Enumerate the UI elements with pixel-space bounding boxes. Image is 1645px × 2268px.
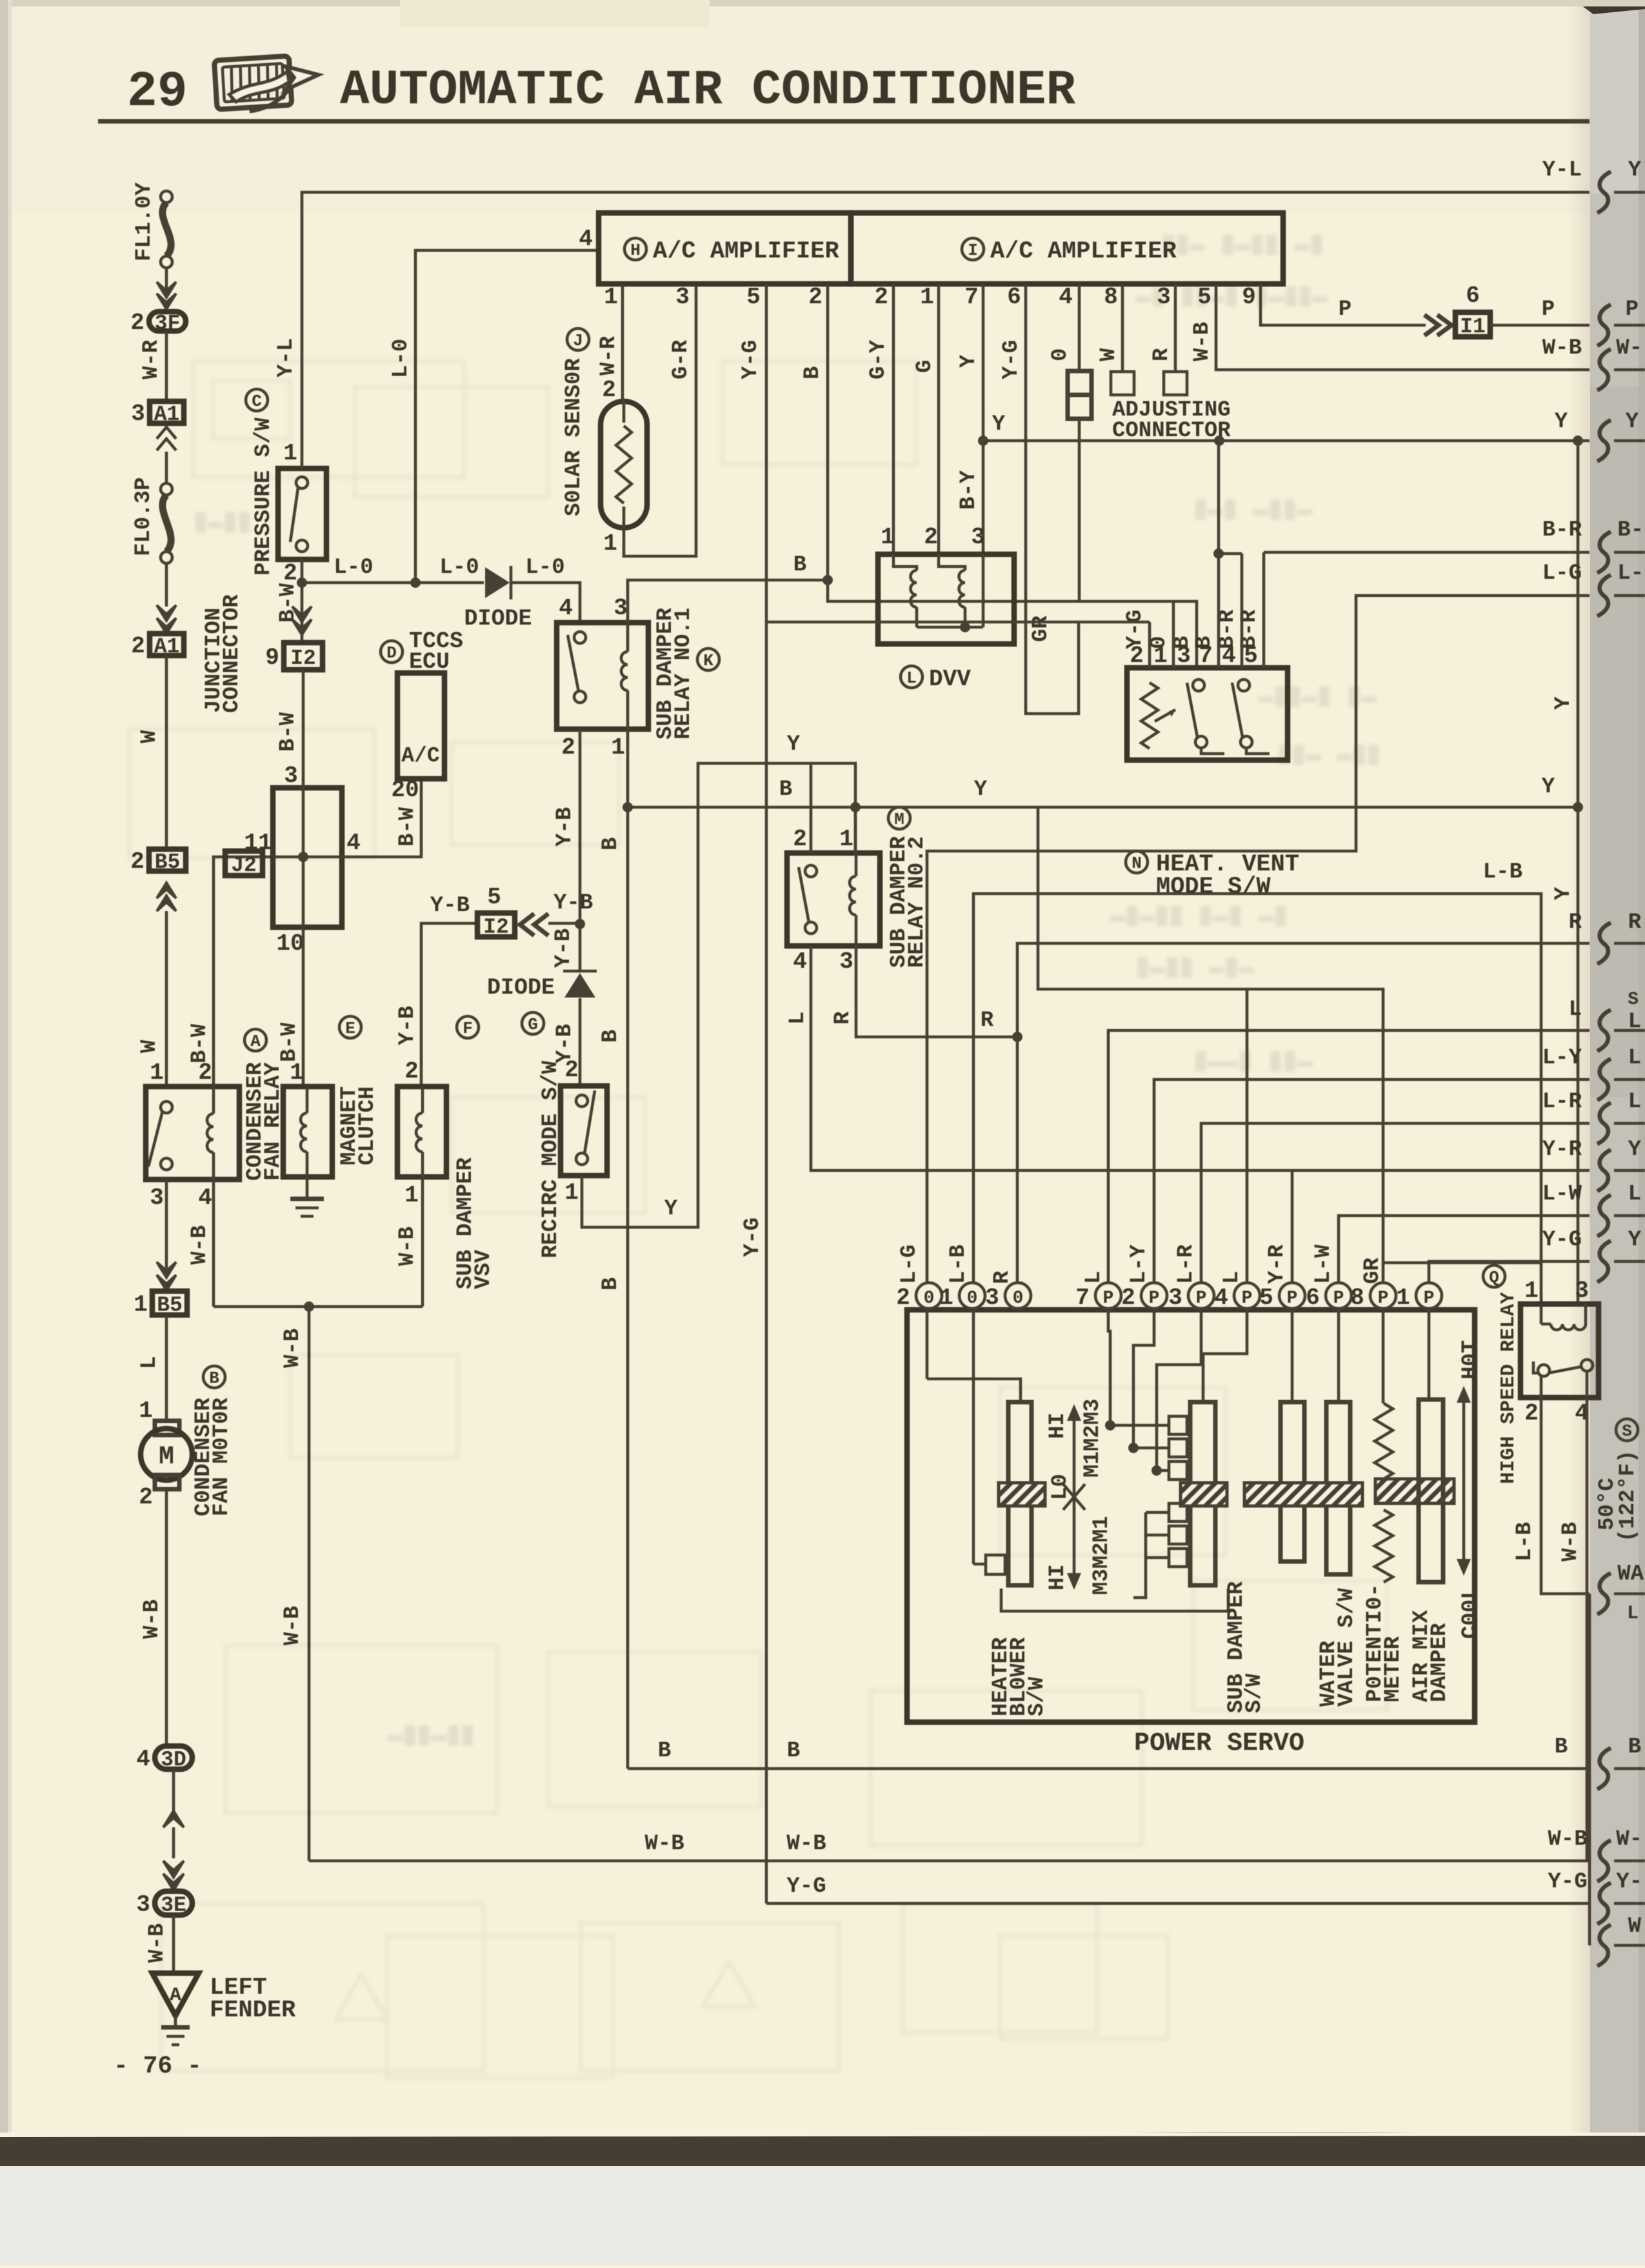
svg-text:L-B: L-B — [1513, 1522, 1537, 1561]
svg-text:L-Y: L-Y — [1127, 1244, 1151, 1284]
svg-text:1: 1 — [611, 734, 625, 761]
wire — [165, 268, 168, 292]
svg-text:Y: Y — [787, 732, 801, 757]
svg-text:C00L: C00L — [1459, 1586, 1483, 1639]
svg-text:I2: I2 — [290, 647, 316, 670]
wire L-G to page edge — [927, 596, 1590, 1283]
svg-text:Y: Y — [1628, 158, 1642, 183]
svg-text:A: A — [170, 1985, 181, 2007]
svg-text:R: R — [981, 1009, 994, 1033]
I pin 4 wire O to adjusting connector — [1078, 284, 1081, 371]
heater blower switch slider — [926, 1309, 929, 1379]
svg-text:A/C AMPLIFIER: A/C AMPLIFIER — [990, 238, 1177, 265]
svg-text:B: B — [1555, 1735, 1568, 1760]
wire Y-G bus — [766, 1902, 1590, 1905]
I pin 2 wire G-Y to DVV 1 — [892, 284, 895, 554]
connector 3F pin 2 — [149, 312, 186, 331]
svg-text:ECU: ECU — [409, 649, 450, 675]
svg-text:DIODE: DIODE — [487, 975, 555, 1001]
svg-text:▮▬▬▮ ▮▮▬: ▮▬▬▮ ▮▮▬ — [1193, 1047, 1312, 1076]
svg-text:G-Y: G-Y — [866, 339, 891, 379]
svg-text:3E: 3E — [161, 1894, 186, 1918]
svg-text:W: W — [1097, 348, 1121, 361]
svg-text:2: 2 — [130, 848, 145, 875]
svg-text:0: 0 — [1013, 1289, 1024, 1309]
svg-text:L-R: L-R — [1174, 1244, 1199, 1284]
svg-text:Y-: Y- — [1616, 1870, 1642, 1894]
svg-text:6: 6 — [1007, 284, 1021, 310]
connector I2 pin 5 — [477, 913, 515, 937]
svg-text:B5: B5 — [155, 850, 181, 874]
svg-text:B: B — [599, 1030, 623, 1043]
svg-text:▮▬▮ ▬▮▮▬: ▮▬▮ ▬▮▮▬ — [1193, 496, 1312, 525]
solar sensor J — [601, 401, 647, 528]
svg-text:B-R: B-R — [1542, 518, 1582, 543]
svg-text:L: L — [1628, 1090, 1641, 1114]
svg-text:Y: Y — [1551, 887, 1576, 900]
left fender ground A — [152, 1973, 199, 2016]
svg-text:W-B: W-B — [145, 1923, 170, 1963]
svg-text:Y-R: Y-R — [1542, 1138, 1582, 1162]
diode — [485, 567, 510, 598]
svg-text:P: P — [1196, 1289, 1207, 1309]
svg-text:DIODE: DIODE — [464, 606, 532, 632]
wire L-B relay pin 2 exit — [1541, 1398, 1590, 1594]
svg-text:Y-G: Y-G — [1542, 1228, 1582, 1252]
I pin 9 wire P to connector I1 — [1261, 284, 1426, 325]
connector I1 pin 6 — [1455, 312, 1490, 337]
H pin 5 wire Y-G down to Y-G bus — [765, 284, 768, 1903]
svg-text:(122°F): (122°F) — [1616, 1450, 1640, 1542]
svg-text:Y-B: Y-B — [553, 807, 577, 847]
svg-text:W-: W- — [1616, 336, 1642, 361]
top-right dark corner — [1574, 0, 1645, 14]
I pin 5 wire W-B to page edge — [1216, 284, 1590, 370]
connector arrow — [157, 282, 176, 297]
svg-text:L: L — [786, 1012, 810, 1025]
thermo switch S label — [1616, 1419, 1638, 1441]
svg-text:W: W — [137, 730, 162, 743]
svg-text:Q: Q — [1489, 1268, 1499, 1287]
svg-text:3: 3 — [1168, 1285, 1182, 1311]
svg-text:L-0: L-0 — [439, 556, 479, 580]
wire R relay M pin 3 — [856, 946, 1017, 1037]
connector B5 pin 1 — [152, 1291, 187, 1315]
svg-text:Y-G: Y-G — [786, 1874, 826, 1899]
svg-text:L: L — [1628, 1182, 1641, 1207]
wire Y right exit branch — [1577, 805, 1580, 807]
svg-text:5: 5 — [1259, 1285, 1273, 1311]
svg-text:S: S — [1628, 990, 1639, 1010]
svg-text:1: 1 — [150, 1059, 164, 1086]
svg-text:GR: GR — [1029, 616, 1053, 642]
svg-text:G: G — [528, 1015, 538, 1034]
svg-text:A/C: A/C — [401, 744, 439, 768]
svg-text:B: B — [209, 1369, 219, 1388]
wire W-B relay pin 4 to bus — [1586, 1398, 1589, 1861]
svg-text:1: 1 — [920, 284, 934, 310]
svg-text:S: S — [1622, 1421, 1632, 1441]
svg-text:I: I — [968, 241, 978, 260]
wire Y-B VSV to I2 pin 5 — [421, 923, 477, 1086]
svg-text:L-G: L-G — [897, 1245, 922, 1284]
svg-text:W-B: W-B — [188, 1225, 212, 1265]
svg-text:W-B: W-B — [786, 1832, 826, 1856]
svg-text:2: 2 — [131, 633, 145, 659]
svg-text:VALVE S/W: VALVE S/W — [1335, 1588, 1359, 1707]
wire L to B5 — [165, 1179, 168, 1269]
svg-text:W-B: W-B — [1190, 322, 1215, 361]
svg-text:HI: HI — [1046, 1564, 1070, 1591]
H pin 1 wire W-R — [621, 284, 624, 401]
svg-text:Y: Y — [1628, 1138, 1642, 1162]
svg-text:P: P — [1378, 1289, 1389, 1309]
wire W — [165, 911, 168, 1087]
svg-text:F: F — [463, 1019, 473, 1038]
svg-text:I2: I2 — [483, 916, 509, 939]
svg-text:1: 1 — [1524, 1278, 1539, 1304]
wire B-W relay coil to junction connector pin 11 — [214, 857, 273, 1087]
svg-text:W-B: W-B — [1542, 336, 1582, 361]
svg-text:6: 6 — [1306, 1285, 1320, 1311]
svg-text:P: P — [1542, 297, 1555, 322]
connector arrows — [520, 914, 534, 936]
svg-text:6: 6 — [1466, 283, 1480, 309]
wire — [165, 563, 168, 607]
svg-text:W-B: W-B — [140, 1600, 164, 1639]
svg-text:L-R: L-R — [1542, 1090, 1582, 1114]
svg-text:FL0.3P: FL0.3P — [132, 477, 156, 556]
wire L-R to page edge — [1201, 1123, 1590, 1283]
svg-text:0: 0 — [967, 1289, 978, 1309]
wire Y-B to junction — [548, 922, 580, 925]
svg-text:- 76 -: - 76 - — [114, 2052, 202, 2080]
svg-text:5: 5 — [746, 284, 761, 310]
svg-text:L: L — [1220, 1271, 1244, 1284]
svg-text:3: 3 — [131, 401, 145, 427]
svg-text:Y: Y — [1626, 410, 1639, 434]
TCCS ECU D — [397, 673, 444, 779]
svg-text:B: B — [793, 553, 806, 577]
svg-text:3: 3 — [284, 763, 298, 789]
svg-text:2: 2 — [139, 1484, 153, 1510]
svg-text:2: 2 — [896, 1285, 910, 1311]
svg-text:4: 4 — [559, 595, 573, 621]
wire sensor to H pin 3 — [624, 284, 696, 556]
wire W exit bottom — [1588, 1594, 1591, 1945]
svg-text:G: G — [913, 360, 937, 373]
left edge strip — [0, 0, 8, 2133]
I pin 1 wire G to DVV 2 — [937, 284, 941, 554]
svg-text:Y-G: Y-G — [999, 340, 1024, 379]
svg-text:P: P — [1626, 297, 1639, 322]
svg-text:W: W — [1628, 1914, 1642, 1939]
svg-text:1: 1 — [283, 440, 297, 467]
power servo box — [907, 1310, 1475, 1722]
top edge strip — [0, 0, 1645, 6]
svg-text:7: 7 — [964, 284, 979, 310]
svg-text:W-B: W-B — [281, 1329, 305, 1368]
wire L-W to page edge — [1339, 1216, 1590, 1283]
svg-text:MODE S/W: MODE S/W — [1156, 874, 1271, 901]
svg-text:M3M2M1: M3M2M1 — [1090, 1516, 1114, 1595]
svg-text:3: 3 — [839, 948, 853, 975]
svg-text:HI: HI — [1046, 1412, 1070, 1439]
svg-text:▬▮▮▬▮ ▮▬: ▬▮▮▬▮ ▮▬ — [1258, 683, 1377, 712]
svg-text:1: 1 — [603, 530, 617, 557]
svg-text:1: 1 — [1396, 1285, 1410, 1311]
svg-text:Y: Y — [664, 1197, 678, 1221]
svg-text:▬▮▬▮▮ ▮▬▮ ▬▮: ▬▮▬▮▮ ▮▬▮ ▬▮ — [1110, 902, 1288, 931]
svg-text:P: P — [1339, 297, 1351, 322]
svg-text:W-B: W-B — [395, 1227, 420, 1266]
svg-text:Y: Y — [1555, 410, 1568, 434]
svg-text:B: B — [801, 366, 825, 379]
svg-text:A1: A1 — [154, 635, 180, 659]
svg-text:L: L — [1628, 1046, 1641, 1070]
svg-text:M: M — [894, 810, 904, 829]
svg-text:W-R: W-R — [139, 339, 164, 379]
svg-text:Y: Y — [1542, 775, 1555, 799]
H pin 2 wire B — [828, 284, 1197, 668]
wire B/Y horizontal — [628, 806, 1578, 809]
svg-text:Y: Y — [1628, 1228, 1642, 1252]
power servo pins P — [1095, 1283, 1121, 1309]
connector chevrons — [157, 883, 176, 898]
wire W-B to ground — [172, 1915, 175, 1973]
wire B-W junction pin 4 to TCCS ECU pin 20 — [342, 779, 421, 857]
bleedthrough ghosts — [129, 361, 1387, 2078]
sub damper relay no.1 K — [557, 623, 648, 729]
svg-text:PRESSURE S/W: PRESSURE S/W — [252, 417, 276, 576]
svg-text:8: 8 — [1350, 1285, 1364, 1311]
svg-text:3: 3 — [985, 1285, 999, 1311]
connector I2 pin 9 — [284, 643, 323, 670]
svg-text:Y-G: Y-G — [1548, 1870, 1587, 1894]
svg-text:Y-L: Y-L — [1542, 158, 1582, 183]
svg-text:S/W: S/W — [1242, 1673, 1267, 1713]
air mix damper slider — [1428, 1309, 1431, 1400]
bottom bracket — [1001, 1589, 1228, 1611]
DVV solenoid L — [878, 554, 1014, 644]
svg-text:1: 1 — [839, 826, 853, 852]
svg-text:4: 4 — [346, 830, 361, 856]
svg-text:Y-G: Y-G — [741, 1218, 765, 1257]
svg-text:9: 9 — [265, 645, 279, 671]
svg-text:J2: J2 — [231, 854, 257, 878]
svg-text:B5: B5 — [157, 1294, 183, 1318]
svg-text:R: R — [990, 1270, 1015, 1284]
pressure switch C — [278, 468, 326, 559]
svg-text:AUTOMATIC AIR CONDITIONER: AUTOMATIC AIR CONDITIONER — [340, 63, 1076, 118]
svg-text:DAMPER: DAMPER — [1428, 1623, 1452, 1702]
svg-text:W: W — [137, 1039, 162, 1053]
wire W-B bus — [309, 1860, 1590, 1863]
svg-text:5: 5 — [1197, 284, 1211, 310]
heat vent mode switch N — [1127, 668, 1288, 760]
wire L relay M pin 4 to power servo P5 (Y-R) — [811, 946, 1590, 1170]
svg-text:C: C — [252, 392, 262, 411]
svg-text:L: L — [1569, 998, 1582, 1022]
svg-text:GR: GR — [1361, 1258, 1385, 1284]
svg-text:RECIRC MODE S/W: RECIRC MODE S/W — [539, 1060, 563, 1258]
svg-text:DVV: DVV — [929, 666, 971, 692]
svg-text:B-W: B-W — [395, 807, 420, 847]
svg-text:4: 4 — [579, 226, 593, 252]
svg-text:R: R — [831, 1011, 855, 1025]
svg-text:2: 2 — [1121, 1285, 1135, 1311]
header A/C vent icon — [214, 54, 321, 114]
A/C amplifier H — [599, 213, 851, 284]
svg-text:0: 0 — [1048, 348, 1073, 361]
svg-text:D: D — [386, 643, 397, 663]
svg-text:L: L — [1627, 1603, 1639, 1625]
svg-text:J: J — [573, 331, 583, 350]
HI LO arrows — [1073, 1412, 1076, 1582]
svg-text:P: P — [1424, 1289, 1435, 1309]
svg-text:2: 2 — [924, 524, 938, 550]
svg-text:3: 3 — [136, 1892, 150, 1918]
sub damper switch slider — [1203, 1309, 1247, 1402]
wire L-O horizontal — [302, 581, 484, 585]
svg-text:METER: METER — [1381, 1636, 1406, 1702]
svg-text:W-B: W-B — [1548, 1827, 1587, 1852]
svg-text:Y-B: Y-B — [430, 894, 470, 918]
svg-text:1: 1 — [939, 1285, 953, 1311]
junction connector box — [273, 788, 342, 927]
svg-text:B-: B- — [1617, 518, 1644, 543]
svg-text:A: A — [250, 1032, 261, 1051]
wire — [165, 452, 168, 483]
svg-text:Y: Y — [992, 412, 1006, 437]
wire W-B VSV pin1 — [421, 1177, 424, 1307]
svg-text:4: 4 — [136, 1746, 150, 1772]
connector A1 pin 3 — [150, 401, 184, 423]
svg-text:Y-G: Y-G — [739, 340, 763, 379]
ground — [306, 1177, 309, 1198]
svg-text:CLUTCH: CLUTCH — [355, 1087, 380, 1165]
svg-text:1: 1 — [404, 1182, 419, 1209]
svg-text:4: 4 — [1214, 1285, 1228, 1311]
svg-text:Y: Y — [957, 354, 981, 368]
svg-text:9: 9 — [1242, 284, 1256, 310]
wire L-O diode to relay K pin 4 — [511, 583, 580, 623]
sub damper relay no.2 M — [787, 853, 880, 946]
hot cool arrow — [1462, 1395, 1466, 1567]
high speed relay Q — [1483, 1265, 1505, 1287]
wire W-B down to bus — [308, 1307, 311, 1861]
svg-text:L: L — [1628, 1010, 1641, 1034]
svg-text:L-0: L-0 — [334, 556, 373, 580]
wire W-R — [165, 331, 168, 401]
svg-text:W-: W- — [1616, 1827, 1642, 1852]
svg-text:2: 2 — [561, 734, 575, 761]
svg-text:W-R: W-R — [597, 336, 621, 376]
svg-text:3: 3 — [150, 1185, 164, 1211]
svg-text:29: 29 — [127, 64, 188, 121]
header rule — [98, 119, 1590, 124]
svg-text:2: 2 — [564, 1057, 579, 1083]
wire Y recirc pin1 — [582, 763, 855, 1227]
wire L-Y to page edge — [1154, 1079, 1590, 1283]
svg-text:G-R: G-R — [669, 339, 693, 379]
connector J2 — [225, 851, 263, 876]
wire B relay K pin 3 — [628, 580, 828, 623]
connector 3D pin 4 — [155, 1746, 192, 1769]
svg-text:B-Y: B-Y — [957, 470, 981, 510]
mode switch internals — [1141, 683, 1158, 748]
svg-text:FENDER: FENDER — [210, 1997, 296, 2024]
svg-text:L: L — [906, 668, 917, 688]
svg-text:L-B: L-B — [946, 1245, 971, 1284]
svg-text:L-0: L-0 — [389, 339, 414, 378]
wire Y-G power servo P1 to page edge — [1429, 1261, 1590, 1283]
wire W — [165, 656, 168, 849]
svg-text:L0: L0 — [1048, 1474, 1073, 1500]
wire B-W pressure to I2 — [301, 559, 304, 643]
svg-text:L-: L- — [1617, 561, 1644, 586]
svg-text:3: 3 — [1157, 284, 1171, 310]
svg-text:B-W: B-W — [276, 712, 301, 752]
svg-text:HIGH SPEED RELAY: HIGH SPEED RELAY — [1497, 1292, 1520, 1484]
wire Y-G horizontal mode switch — [766, 621, 1150, 624]
svg-text:Y-R: Y-R — [1265, 1244, 1290, 1284]
svg-text:RELAY N0.2: RELAY N0.2 — [905, 836, 930, 968]
svg-text:3: 3 — [1575, 1278, 1589, 1304]
svg-text:B: B — [787, 1739, 800, 1763]
wire W-B horizontal — [214, 1305, 423, 1309]
svg-text:Y-L: Y-L — [274, 338, 299, 377]
connector A1 pin 2 — [150, 634, 184, 656]
svg-text:POWER SERVO: POWER SERVO — [1134, 1729, 1304, 1758]
svg-text:2: 2 — [1524, 1400, 1539, 1427]
wire L-B to high speed relay pin 1 — [973, 894, 1541, 1304]
condenser fan motor B — [203, 1366, 225, 1388]
svg-text:Y: Y — [1551, 696, 1576, 710]
svg-text:▬▮▮▬▮▮: ▬▮▮▬▮▮ — [387, 1721, 475, 1751]
bottom dark band — [0, 2133, 1645, 2166]
svg-text:1: 1 — [564, 1179, 579, 1206]
potentiometer — [1382, 1309, 1385, 1403]
svg-text:Y-B: Y-B — [553, 891, 593, 916]
svg-text:▮▮▬ ▬▮▮: ▮▮▬ ▬▮▮ — [1277, 741, 1381, 770]
svg-text:▮▮▬ ▮▬▮▮ ▬▮: ▮▮▬ ▮▬▮▮ ▬▮ — [1161, 231, 1324, 260]
wire R to page edge — [1017, 943, 1590, 1283]
svg-text:W-B: W-B — [1559, 1522, 1583, 1561]
I pin 8 wire W — [1121, 284, 1124, 372]
svg-text:L-W: L-W — [1311, 1244, 1336, 1284]
heater blower contact block — [1108, 1309, 1110, 1425]
svg-text:P: P — [1242, 1289, 1253, 1309]
svg-text:2: 2 — [404, 1058, 419, 1085]
svg-text:2: 2 — [130, 310, 145, 336]
wire Y-B relay K pin 2 to recirc switch — [579, 729, 582, 971]
svg-text:10: 10 — [276, 930, 304, 957]
diode 2 — [564, 973, 595, 998]
svg-text:P: P — [1149, 1289, 1160, 1309]
svg-text:RELAY NO.1: RELAY NO.1 — [672, 608, 696, 739]
svg-text:L: L — [1082, 1271, 1106, 1284]
fusible link FL0.3P — [161, 483, 172, 495]
svg-text:B-W: B-W — [188, 1023, 212, 1063]
svg-text:4: 4 — [198, 1185, 212, 1211]
wire Y vertical to high speed relay pin 3 — [1577, 441, 1580, 1304]
wire L to page edge — [1108, 1030, 1590, 1283]
water valve sliders — [1291, 1309, 1294, 1402]
svg-text:0: 0 — [924, 1289, 935, 1309]
mode switch pin wires — [1148, 622, 1151, 668]
svg-text:B: B — [1628, 1735, 1641, 1760]
